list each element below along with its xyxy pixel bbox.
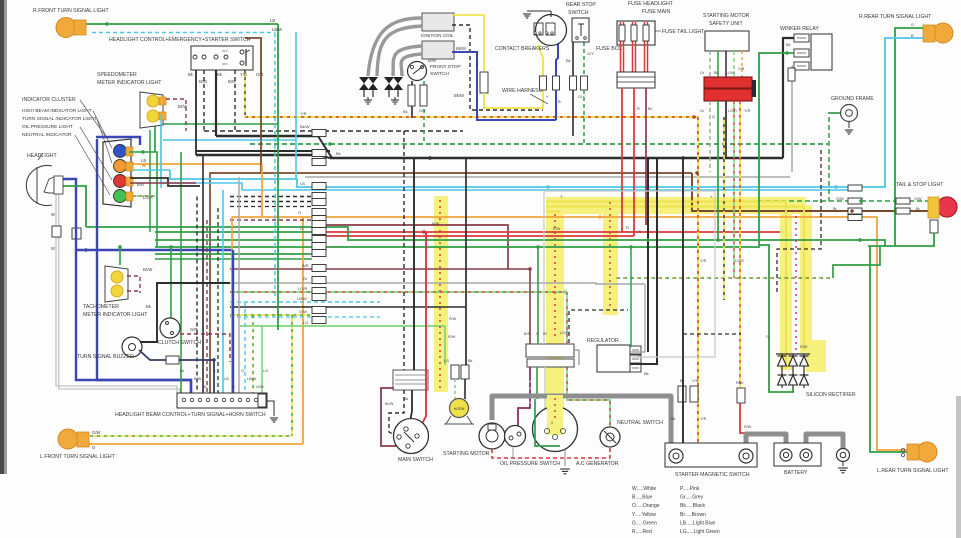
svg-text:METER INDICATOR LIGHT: METER INDICATOR LIGHT	[83, 312, 148, 318]
svg-text:G: G	[766, 335, 769, 339]
svg-text:Bk/W: Bk/W	[456, 46, 466, 51]
svg-text:G/W: G/W	[299, 309, 307, 314]
svg-text:GROUND FRAME: GROUND FRAME	[831, 96, 874, 102]
svg-text:WINKER RELAY: WINKER RELAY	[780, 26, 819, 32]
svg-text:SWITCH: SWITCH	[430, 71, 449, 77]
svg-text:Y: Y	[476, 98, 479, 103]
svg-text:OFF: OFF	[222, 62, 228, 66]
svg-text:P.....Pink: P.....Pink	[680, 486, 700, 492]
svg-text:OIL PRESSURE LIGHT: OIL PRESSURE LIGHT	[22, 124, 73, 130]
svg-text:LG: LG	[444, 359, 449, 363]
svg-text:Bk: Bk	[671, 417, 676, 421]
svg-text:Y/R: Y/R	[738, 67, 745, 71]
svg-text:L.FRONT TURN SIGNAL LIGHT: L.FRONT TURN SIGNAL LIGHT	[40, 454, 116, 460]
svg-text:Gr: Gr	[700, 71, 705, 75]
svg-text:B/W: B/W	[228, 79, 236, 84]
svg-text:R/W: R/W	[448, 335, 456, 339]
svg-text:Bk: Bk	[566, 58, 571, 63]
svg-text:R/W: R/W	[432, 222, 440, 226]
svg-text:G/Y: G/Y	[587, 51, 594, 56]
svg-text:W: W	[51, 246, 55, 251]
svg-text:LG.....Light Green: LG.....Light Green	[680, 529, 720, 535]
svg-text:LB/W: LB/W	[297, 296, 307, 301]
svg-text:G: G	[712, 115, 715, 119]
svg-text:B: B	[558, 99, 561, 104]
svg-text:B/W: B/W	[194, 377, 202, 381]
svg-text:Bk: Bk	[404, 397, 409, 401]
svg-text:Y: Y	[710, 194, 713, 199]
svg-text:Br/W: Br/W	[143, 267, 152, 272]
svg-text:LG/R: LG/R	[298, 286, 307, 291]
svg-text:R: R	[626, 225, 629, 230]
svg-text:B/R: B/R	[302, 263, 309, 268]
svg-text:FRONT STOP: FRONT STOP	[430, 64, 461, 70]
svg-text:LB: LB	[141, 158, 146, 163]
svg-text:R.REAR TURN SIGNAL LIGHT: R.REAR TURN SIGNAL LIGHT	[859, 14, 932, 20]
svg-text:OIL PRESSURE SWITCH: OIL PRESSURE SWITCH	[500, 461, 560, 467]
svg-text:R.....Red: R.....Red	[632, 529, 652, 535]
svg-text:FUSE HEADLIGHT: FUSE HEADLIGHT	[628, 1, 674, 7]
svg-text:LB: LB	[270, 18, 275, 23]
svg-text:Bk: Bk	[714, 71, 719, 75]
svg-text:B/R: B/R	[524, 332, 531, 336]
svg-text:Bk/W: Bk/W	[454, 93, 464, 98]
svg-text:R/W: R/W	[736, 381, 744, 385]
svg-text:G: G	[232, 385, 235, 389]
svg-text:LB/W: LB/W	[247, 377, 257, 381]
svg-text:G: G	[300, 226, 303, 231]
svg-text:HORN: HORN	[454, 407, 465, 411]
svg-text:Gr: Gr	[303, 276, 308, 281]
svg-text:O: O	[298, 210, 301, 215]
svg-text:Bk/W: Bk/W	[300, 124, 310, 129]
svg-text:B/W: B/W	[428, 58, 436, 63]
svg-text:STARTING MOTOR: STARTING MOTOR	[443, 451, 490, 457]
svg-text:R: R	[638, 229, 641, 234]
svg-text:Bk: Bk	[336, 151, 341, 156]
svg-text:G/R: G/R	[190, 327, 197, 332]
svg-text:LG/R: LG/R	[728, 109, 737, 113]
svg-text:FUSE MAIN: FUSE MAIN	[642, 9, 670, 15]
svg-text:REGULATOR: REGULATOR	[587, 338, 619, 344]
svg-text:Y/R: Y/R	[692, 379, 699, 383]
svg-text:W: W	[51, 212, 55, 217]
svg-text:Y/R: Y/R	[744, 109, 751, 113]
svg-text:G/W: G/W	[92, 430, 100, 435]
svg-text:LG/R: LG/R	[143, 195, 153, 200]
svg-text:B/R: B/R	[137, 182, 144, 187]
svg-text:Bk: Bk	[644, 371, 649, 376]
svg-text:G.....Green: G.....Green	[632, 520, 657, 526]
svg-text:Br/W: Br/W	[178, 104, 187, 109]
svg-text:Y: Y	[546, 94, 549, 99]
svg-text:Bk: Bk	[180, 369, 185, 373]
svg-text:LB: LB	[224, 377, 229, 381]
svg-text:R/W: R/W	[800, 345, 808, 349]
svg-text:G/W: G/W	[836, 197, 844, 201]
svg-text:WIRE HARNESS: WIRE HARNESS	[502, 88, 543, 94]
svg-text:R/W: R/W	[449, 317, 457, 321]
svg-text:W: W	[543, 332, 547, 336]
svg-text:G: G	[536, 332, 539, 336]
svg-text:G/R: G/R	[256, 72, 263, 77]
svg-text:G: G	[911, 22, 914, 27]
svg-text:G/W: G/W	[256, 385, 264, 389]
svg-text:TACHOMETER: TACHOMETER	[83, 304, 119, 310]
svg-text:LG/R: LG/R	[560, 331, 569, 335]
svg-text:FUSE TAIL LIGHT: FUSE TAIL LIGHT	[662, 29, 705, 35]
svg-text:REAR STOP: REAR STOP	[566, 2, 596, 8]
svg-text:Y: Y	[560, 194, 563, 199]
svg-text:HEADLIGHT BEAM CONTROL+TURN SI: HEADLIGHT BEAM CONTROL+TURN SIGNAL+HORN …	[115, 412, 266, 418]
svg-text:Br: Br	[648, 106, 653, 111]
svg-text:NEUTRAL SWITCH: NEUTRAL SWITCH	[617, 420, 663, 426]
svg-text:R/W: R/W	[553, 227, 561, 231]
svg-text:Bk.....Black: Bk.....Black	[680, 503, 706, 509]
svg-text:HEADLIGHT CONTROL+EMERGENCY+ST: HEADLIGHT CONTROL+EMERGENCY+STARTER SWIT…	[109, 37, 251, 43]
svg-text:Gr: Gr	[700, 109, 705, 113]
svg-text:R.FRONT TURN SIGNAL LIGHT: R.FRONT TURN SIGNAL LIGHT	[33, 8, 110, 14]
svg-text:Gr.....Grey: Gr.....Grey	[680, 495, 704, 501]
svg-text:W.....White: W.....White	[632, 486, 656, 492]
svg-text:Bk: Bk	[403, 109, 408, 114]
svg-text:O: O	[241, 369, 244, 373]
svg-text:LB/W: LB/W	[272, 27, 282, 32]
svg-text:INDICATOR CLUSTER: INDICATOR CLUSTER	[22, 97, 76, 103]
svg-text:SPEEDOMETER: SPEEDOMETER	[97, 72, 137, 78]
svg-text:Br/W: Br/W	[385, 402, 394, 406]
svg-text:TAIL & STOP LIGHT: TAIL & STOP LIGHT	[896, 182, 944, 188]
svg-text:METER INDICATOR LIGHT: METER INDICATOR LIGHT	[97, 80, 162, 86]
svg-text:B.....Blue: B.....Blue	[632, 495, 653, 501]
svg-text:STARTER MAGNETIC SWITCH: STARTER MAGNETIC SWITCH	[675, 472, 750, 478]
svg-text:TURN SIGNAL INDICATOR LIGHT: TURN SIGNAL INDICATOR LIGHT	[22, 116, 97, 122]
svg-text:Y/R: Y/R	[700, 417, 707, 421]
svg-text:G/W: G/W	[914, 197, 922, 201]
svg-text:BATTERY: BATTERY	[784, 470, 808, 476]
svg-text:Y/R: Y/R	[700, 259, 707, 263]
svg-text:R/W: R/W	[744, 425, 752, 429]
svg-text:CLUTCH SWITCH: CLUTCH SWITCH	[158, 340, 201, 346]
svg-text:IGNITION COIL: IGNITION COIL	[421, 33, 454, 38]
svg-text:G/Y: G/Y	[419, 108, 426, 113]
svg-text:TURN SIGNAL BUZZER: TURN SIGNAL BUZZER	[77, 354, 134, 360]
svg-text:A.C GENERATOR: A.C GENERATOR	[576, 461, 619, 467]
svg-text:LG: LG	[303, 320, 308, 325]
svg-text:OFF: OFF	[222, 49, 228, 53]
svg-text:Y.....Yellow: Y.....Yellow	[632, 512, 656, 518]
svg-text:O.....Orange: O.....Orange	[632, 503, 660, 509]
svg-text:Y: Y	[476, 62, 479, 67]
svg-text:CONTACT BREAKERS: CONTACT BREAKERS	[495, 46, 550, 52]
svg-text:LG/R: LG/R	[726, 71, 735, 75]
svg-text:LB.....Light Blue: LB.....Light Blue	[680, 520, 716, 526]
svg-text:LB: LB	[300, 181, 305, 186]
svg-text:L.REAR TURN SIGNAL LIGHT: L.REAR TURN SIGNAL LIGHT	[877, 468, 949, 474]
svg-text:SAFETY UNIT: SAFETY UNIT	[709, 21, 743, 27]
svg-text:LG/R: LG/R	[735, 259, 744, 263]
svg-text:B/W: B/W	[199, 79, 207, 84]
svg-text:HIGH BEAM INDICATOR LIGHT: HIGH BEAM INDICATOR LIGHT	[22, 108, 92, 114]
svg-text:FUSE BOX: FUSE BOX	[596, 46, 623, 52]
svg-text:Bk: Bk	[468, 359, 473, 363]
svg-text:SILICON RECTIFIER: SILICON RECTIFIER	[806, 392, 856, 398]
svg-text:Bk: Bk	[786, 42, 791, 47]
svg-text:R: R	[637, 106, 640, 111]
svg-text:Y/R: Y/R	[240, 72, 247, 77]
svg-text:Y/R: Y/R	[300, 111, 307, 116]
svg-text:STARTING MOTOR: STARTING MOTOR	[703, 13, 750, 19]
svg-text:MAIN SWITCH: MAIN SWITCH	[398, 457, 433, 463]
svg-text:SWITCH: SWITCH	[568, 10, 589, 16]
svg-text:LG: LG	[263, 369, 268, 373]
svg-text:Br.....Brown: Br.....Brown	[680, 512, 706, 518]
svg-text:B: B	[911, 33, 914, 38]
svg-text:NEUTRAL INDICATOR: NEUTRAL INDICATOR	[22, 132, 72, 138]
